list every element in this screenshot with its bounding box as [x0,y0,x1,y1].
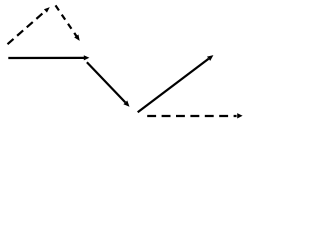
solid vector arrow V4 (down-right) [87,62,130,106]
solid vector arrow V5 (up-right) [138,55,214,112]
dashed vector arrow V1 (up-right, left triangle) [8,7,50,44]
solid vector arrow V3 (horizontal resultant, left triangle) [8,55,89,60]
dashed vector arrow V2 (down-right, left triangle) [56,5,80,41]
dashed vector arrow V6 (horizontal, bottom right) [147,113,242,118]
